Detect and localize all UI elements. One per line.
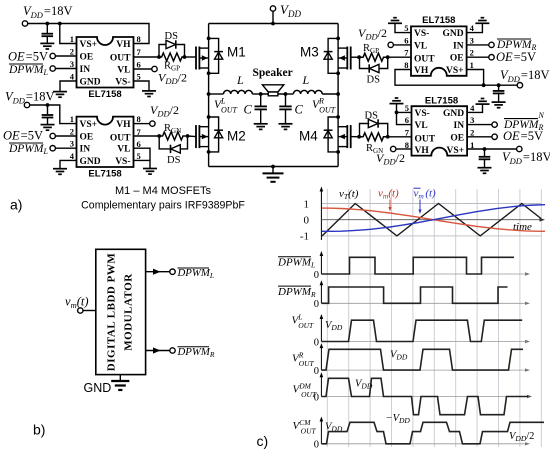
svg-text:DPWML: DPWML	[8, 64, 49, 77]
arrow vm-bar blue	[419, 200, 421, 212]
wire M3 drain column	[337, 24, 339, 39]
svg-text:OUT: OUT	[414, 55, 435, 65]
svg-text:1: 1	[70, 34, 74, 44]
svg-text:0: 0	[314, 337, 319, 348]
wire U3 to M3 gate	[351, 56, 359, 58]
transistor M1 with body diode	[196, 37, 223, 76]
junction RGP U3 left	[357, 55, 361, 59]
plot1 tick labels	[300, 199, 310, 243]
svg-text:VDD=18V: VDD=18V	[23, 4, 73, 20]
svg-text:DS: DS	[365, 111, 379, 122]
ground U2 pin4	[53, 169, 67, 175]
svg-text:Speaker: Speaker	[252, 67, 292, 79]
svg-text:L: L	[236, 73, 244, 87]
svg-text:vT(t): vT(t)	[339, 188, 359, 201]
svg-text:a): a)	[10, 197, 22, 213]
ground C1	[40, 43, 54, 49]
waveform VCM	[321, 422, 544, 444]
wire U3 pin7 OUT	[388, 56, 411, 58]
ground U2 pin5	[143, 169, 157, 175]
capacitor C3 bypass U3	[493, 85, 505, 102]
svg-text:0: 0	[314, 299, 319, 310]
plot1 time axis	[321, 219, 542, 221]
svg-text:DS: DS	[165, 31, 179, 42]
terminal OE U3	[489, 55, 494, 60]
svg-text:VL: VL	[414, 41, 427, 51]
svg-text:1: 1	[470, 60, 474, 70]
svg-text:M1: M1	[227, 45, 246, 60]
wire bottom rail	[209, 166, 339, 168]
svg-text:3: 3	[470, 35, 474, 45]
diode DS (U1 speedup)	[159, 40, 185, 57]
junction U4 VS-/VL	[395, 111, 399, 115]
wire VDD stub	[272, 11, 274, 23]
waveform DPWMR	[321, 287, 507, 303]
transistor M2 with body diode	[196, 115, 223, 154]
wire M4 source to bottom rail	[337, 153, 339, 166]
svg-text:c): c)	[257, 433, 269, 449]
terminal VDD/2 U2	[150, 121, 155, 126]
svg-text:M1 – M4 MOSFETs: M1 – M4 MOSFETs	[115, 185, 211, 197]
inductor L right	[286, 90, 339, 94]
svg-text:0: 0	[314, 392, 319, 403]
svg-text:time: time	[513, 221, 532, 233]
resistor RGP (U3 gate resistor)	[361, 53, 387, 61]
svg-text:M2: M2	[227, 129, 246, 144]
op-amp driver U2 EL7158 body	[77, 117, 134, 167]
wire output DPWML	[146, 271, 170, 273]
junction node VR	[336, 92, 340, 96]
label DPWMR (U3 input)	[496, 39, 537, 52]
junction RGN U4 right	[386, 135, 390, 139]
svg-text:DPWMR: DPWMR	[177, 346, 215, 359]
wire U4 pin2 OE	[467, 136, 492, 138]
modulating signal vm (red)	[322, 208, 545, 231]
svg-text:OUT: OUT	[415, 135, 436, 145]
svg-text:EL7158: EL7158	[88, 89, 121, 100]
svg-text:DS: DS	[167, 155, 181, 166]
ground C3	[492, 102, 506, 108]
wire U2 pin8 VH	[134, 123, 150, 125]
terminal OE U2	[50, 133, 55, 138]
ground bridge center	[263, 173, 284, 181]
wire block ground stub	[119, 375, 121, 380]
waveform VLOUT	[321, 320, 522, 341]
U2 pin labels	[80, 120, 132, 167]
ground U4 pin5 (up)	[390, 98, 404, 104]
wire U1 pin6 VL	[134, 68, 152, 70]
transistor M4 with body diode (mirrored)	[324, 115, 351, 154]
svg-text:OE: OE	[450, 54, 464, 64]
plot6 axis VDM	[321, 396, 529, 398]
terminal vm input	[78, 308, 83, 313]
ground C4	[478, 168, 492, 174]
junction RGP U3 right	[386, 55, 390, 59]
svg-text:IN: IN	[454, 121, 465, 131]
label DPWML plot	[277, 257, 315, 270]
op-amp driver U4 EL7158 body	[412, 106, 468, 155]
wire U4 to M4 gate	[351, 136, 359, 138]
capacitor C left	[255, 94, 267, 123]
svg-text:GND: GND	[84, 381, 112, 395]
junction node VL	[207, 92, 211, 96]
capacitor C1 bypass U1	[42, 24, 54, 44]
svg-text:N: N	[538, 111, 545, 120]
ground U3 pin4 (up)	[475, 18, 489, 24]
svg-text:VH: VH	[116, 40, 131, 50]
wire node VR column	[337, 73, 339, 118]
U4 pin labels	[415, 109, 465, 156]
svg-text:5: 5	[404, 23, 408, 33]
svg-text:0: 0	[314, 440, 319, 451]
wire U3 pin1 VS+	[467, 70, 484, 86]
terminal VDD/2 U3	[388, 42, 393, 47]
terminal DPWMRN U4	[492, 122, 497, 127]
junction RGP right	[183, 55, 187, 59]
wire ground stub bridge	[272, 167, 274, 173]
svg-text:M3: M3	[300, 45, 319, 60]
wire VDD rail U2 / pin1	[30, 105, 77, 124]
svg-text:DPWML: DPWML	[277, 257, 315, 270]
wire U4 pin3 IN	[467, 124, 492, 126]
terminal VDD/2 U4	[391, 146, 396, 151]
wire U4 pin4 GND	[467, 104, 482, 112]
label DPWML output	[177, 267, 215, 280]
wire top rail	[209, 23, 339, 25]
terminal VDD U1	[22, 21, 27, 26]
junction U4 cap rail	[483, 147, 487, 151]
svg-text:3: 3	[70, 139, 74, 149]
junction RGN U4 left	[357, 135, 361, 139]
svg-text:OE: OE	[80, 133, 94, 143]
wire speaker node	[261, 93, 286, 95]
ground C2	[41, 125, 55, 131]
svg-text:VS+: VS+	[80, 40, 98, 50]
wire U1 pin5 VS-	[134, 81, 150, 91]
svg-text:DIGITAL LBDD PWM: DIGITAL LBDD PWM	[106, 253, 118, 372]
U3 pin labels	[414, 29, 464, 76]
wire U3 pin8 VH to VDD rail	[395, 70, 517, 86]
terminal OE U4	[492, 134, 497, 139]
svg-text:OE=5V: OE=5V	[496, 50, 536, 64]
op-amp driver U1 EL7158 body	[77, 37, 134, 88]
junction VDD rail	[271, 22, 275, 26]
wire U3 pin4 GND	[467, 24, 483, 33]
svg-text:L: L	[302, 73, 310, 87]
svg-text:DPWML: DPWML	[177, 267, 215, 280]
wire U2 pin5 VS-	[134, 160, 151, 168]
arrow output DPWMR	[153, 347, 161, 353]
ground U1 pin4	[53, 92, 67, 98]
svg-text:Complementary pairs IRF9389PbF: Complementary pairs IRF9389PbF	[81, 200, 245, 212]
ground U4 pin4 (up)	[476, 99, 490, 105]
speaker symbol	[262, 85, 283, 96]
waveform VDM	[321, 378, 528, 414]
plot1 level lines	[321, 204, 541, 236]
waveform grid vertical lines	[327, 189, 541, 447]
svg-text:OE=5V: OE=5V	[8, 50, 48, 64]
svg-text:DPWMR: DPWMR	[277, 286, 316, 299]
svg-text:VDD=18V: VDD=18V	[500, 68, 550, 84]
terminal DPWMR U3	[489, 42, 494, 47]
capacitor C right	[279, 94, 291, 123]
svg-text:1: 1	[70, 114, 74, 124]
wire M2 source to bottom rail	[208, 153, 210, 166]
svg-text:VL: VL	[117, 66, 130, 76]
carrier triangle wave vT	[322, 204, 541, 237]
wire U4 pin1 VS+ to VDD rail	[467, 148, 516, 150]
wire U4 pin8 VH	[396, 148, 412, 150]
ground U3 pin5 (up)	[388, 18, 402, 24]
inverted signal vm-bar (blue)	[322, 205, 545, 232]
block U5 digital LBDD PWM modulator	[96, 249, 146, 374]
terminal VDD U4	[517, 146, 522, 151]
plot5 axis VROUT	[321, 369, 527, 371]
wire VDD rail U1	[28, 24, 149, 44]
wire U2 pin6 VL tie	[134, 148, 151, 160]
label DPWML (U2 input)	[8, 143, 49, 156]
svg-text:VS+: VS+	[446, 66, 464, 76]
svg-text:VH: VH	[414, 66, 429, 76]
svg-text:EL7158: EL7158	[422, 15, 455, 26]
terminal DPWML U2	[50, 146, 55, 151]
svg-text:vm(t): vm(t)	[378, 188, 399, 201]
svg-text:VDD=18V: VDD=18V	[502, 150, 550, 166]
junction speaker right	[284, 92, 288, 96]
svg-text:OE: OE	[80, 53, 94, 63]
svg-text:5: 5	[137, 151, 141, 161]
terminal DPWML U1	[50, 66, 55, 71]
junction bottom rail ground	[271, 165, 275, 169]
wire M1 drain column	[208, 24, 210, 39]
svg-text:0: 0	[304, 215, 310, 227]
wire node VL column	[208, 73, 210, 118]
svg-text:VS+: VS+	[80, 120, 98, 130]
svg-text:6: 6	[405, 115, 409, 125]
svg-text:2: 2	[470, 128, 474, 138]
junction RGP left	[157, 55, 161, 59]
wire U1 pin4 GND	[60, 81, 77, 91]
ground U1 pin5	[142, 91, 156, 97]
svg-text:0: 0	[314, 270, 319, 281]
svg-text:VDD=18V: VDD=18V	[5, 90, 55, 106]
arrow vm red	[389, 200, 391, 209]
wire U2 pin4 GND	[60, 160, 77, 168]
svg-text:vm(t): vm(t)	[65, 295, 89, 311]
label DPWMR output	[177, 346, 215, 359]
wire U2 pin7 OUT	[134, 135, 160, 137]
svg-text:8: 8	[404, 60, 408, 70]
svg-text:OE=5V: OE=5V	[503, 129, 543, 143]
junction U1 rail	[45, 22, 49, 26]
label DPWML (U1 input)	[8, 64, 49, 77]
svg-text:OE: OE	[450, 134, 464, 144]
wire U2 pin2 OE	[55, 135, 76, 137]
svg-text:VS+: VS+	[447, 146, 465, 156]
svg-text:EL7158: EL7158	[425, 95, 458, 106]
wire U4 pin6 VL tie	[397, 112, 412, 124]
wire U3 pin2 OE	[467, 56, 489, 58]
svg-text:M4: M4	[299, 129, 318, 144]
wire U4 pin7 OUT	[388, 136, 412, 138]
svg-text:8: 8	[137, 34, 141, 44]
svg-text:EL7158: EL7158	[88, 169, 121, 180]
diode DS (U3 speedup)	[360, 57, 388, 72]
plot4 axis VLOUT	[321, 341, 527, 343]
svg-text:IN: IN	[80, 145, 91, 155]
svg-text:DPWML: DPWML	[8, 143, 49, 156]
svg-text:6: 6	[137, 60, 141, 70]
wire U1 pin1 VS+	[60, 24, 77, 44]
svg-text:GND: GND	[443, 109, 464, 119]
resistor RGN (U4 gate resistor)	[361, 133, 387, 141]
wire U1 pin2 OE	[55, 55, 76, 57]
svg-text:6: 6	[404, 35, 408, 45]
svg-text:VS-: VS-	[414, 29, 429, 39]
terminal VDD/2 U1	[152, 66, 157, 71]
plot7 axis VCM	[321, 443, 527, 445]
ground C left	[254, 124, 268, 130]
svg-text:OUT: OUT	[110, 134, 131, 144]
junction U2 rail	[46, 103, 50, 107]
label vm-bar(t) blue	[414, 188, 437, 201]
svg-text:VS-: VS-	[115, 157, 130, 167]
svg-text:4: 4	[470, 103, 475, 113]
svg-text:IN: IN	[80, 65, 91, 75]
wire output DPWMR	[146, 350, 170, 352]
svg-text:vm(t): vm(t)	[414, 188, 437, 201]
junction U1 rail pin1	[58, 22, 62, 26]
wire U3 pin3 IN	[467, 44, 489, 46]
junction RGN left	[157, 134, 161, 138]
svg-text:GND: GND	[80, 78, 101, 88]
terminal OE U1	[50, 53, 55, 58]
U4 pin numbers	[405, 103, 475, 150]
terminal VDD U2	[24, 102, 29, 107]
capacitor C2 bypass U2	[42, 105, 54, 124]
terminal output DPWMR	[170, 348, 175, 353]
capacitor C4 bypass U4	[479, 149, 491, 167]
plot3 axis DPWMR	[321, 302, 527, 304]
svg-text:4: 4	[470, 23, 475, 33]
U2 pin numbers	[70, 114, 142, 161]
waveform VROUT	[321, 349, 523, 370]
svg-text:DS: DS	[367, 75, 381, 86]
plot1 y-axis	[320, 189, 322, 240]
wire U2 to M2 gate	[188, 135, 197, 138]
svg-text:OUT: OUT	[110, 54, 131, 64]
terminal VDD U3	[517, 83, 522, 88]
svg-text:8: 8	[137, 114, 141, 124]
svg-text:IN: IN	[453, 41, 464, 51]
wire U4 pin5 VS-	[397, 104, 412, 113]
wire U1 pin7 OUT	[134, 56, 160, 58]
diode DS (U2 speedup)	[159, 136, 187, 153]
junction U3 cap rail	[497, 83, 501, 87]
plot2 axis DPWML	[321, 273, 527, 275]
waveform DPWML	[321, 257, 514, 274]
junction U3 VS+ rail	[482, 83, 486, 87]
ground block	[111, 381, 129, 390]
terminal VDD bridge	[270, 6, 275, 11]
svg-text:VL: VL	[415, 121, 428, 131]
svg-text:2: 2	[70, 47, 74, 57]
diode DS (U4 speedup)	[360, 119, 388, 137]
svg-text:3: 3	[70, 59, 74, 69]
U1 pin labels	[80, 40, 132, 88]
svg-text:MODULATOR: MODULATOR	[123, 273, 135, 351]
wire U3 pin5 VS-	[395, 24, 411, 33]
wire U1 pin3 IN	[55, 68, 76, 70]
wire vm to block	[83, 310, 96, 312]
svg-text:2: 2	[470, 48, 474, 58]
label DPWMR plot	[277, 286, 316, 299]
junction speaker left	[259, 92, 263, 96]
ground C right	[279, 124, 293, 130]
label DPWMR^N (U4 input)	[503, 111, 545, 132]
svg-text:1: 1	[304, 199, 310, 211]
wire U2 pin3 IN	[55, 147, 76, 149]
U1 pin numbers	[70, 34, 142, 82]
svg-text:VS-: VS-	[415, 109, 430, 119]
resistor RGN (U2 gate resistor)	[160, 132, 186, 140]
svg-text:C: C	[244, 103, 253, 117]
svg-text:VH: VH	[415, 146, 430, 156]
svg-text:b): b)	[33, 422, 45, 438]
svg-text:5: 5	[405, 103, 409, 113]
inductor L left	[209, 90, 261, 94]
U3 pin numbers	[404, 23, 474, 70]
svg-text:5: 5	[137, 72, 141, 82]
svg-text:2: 2	[70, 127, 74, 137]
svg-text:C: C	[295, 103, 304, 117]
svg-text:-1: -1	[300, 231, 309, 243]
op-amp driver U3 EL7158 body	[411, 26, 467, 75]
wire U1 to M1 gate	[185, 56, 197, 58]
svg-text:VS-: VS-	[115, 78, 130, 88]
resistor RGP (U1 gate resistor)	[159, 53, 185, 61]
svg-text:VL: VL	[117, 145, 130, 155]
wire U3 pin6 VL	[394, 44, 412, 46]
terminal output DPWML	[170, 269, 175, 274]
junction RGN right	[186, 134, 190, 138]
svg-text:GND: GND	[80, 157, 101, 167]
svg-text:VH: VH	[116, 120, 131, 130]
svg-text:OE=5V: OE=5V	[3, 129, 43, 143]
svg-text:0: 0	[314, 366, 319, 377]
arrow output DPWML	[153, 269, 161, 275]
svg-text:GND: GND	[442, 29, 463, 39]
svg-text:3: 3	[470, 115, 474, 125]
transistor M3 with body diode (mirrored)	[324, 37, 351, 76]
